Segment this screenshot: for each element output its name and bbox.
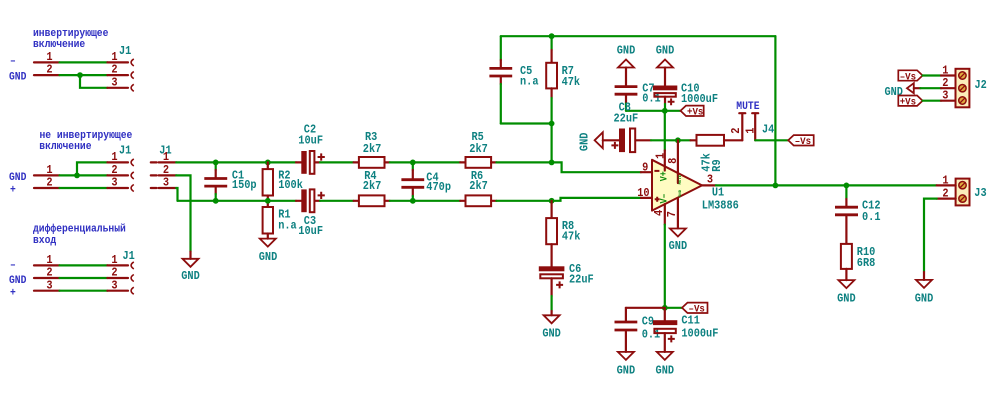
resistor R7: [546, 36, 580, 123]
wire +Vs down to opamp pin1: [664, 111, 666, 151]
svg-text:10uF: 10uF: [298, 134, 323, 148]
wire row1: [60, 61, 108, 63]
svg-text:–Vs: –Vs: [900, 71, 916, 83]
capacitor C6 (polarized): [539, 262, 594, 311]
resistor R9: [691, 135, 743, 172]
node junction C4 top: [410, 160, 416, 166]
wire down to top rail: [550, 124, 552, 163]
pin 1 of J1 (example 1): [107, 61, 128, 63]
note title: не инвертирующее включение: [39, 130, 132, 153]
pin 3 of J1 (example 2): [107, 187, 128, 189]
svg-text:n.a: n.a: [278, 219, 297, 233]
jumper J4 pin 1: [743, 113, 758, 140]
pin 1 of J1 (example 2): [107, 161, 128, 163]
svg-text:3: 3: [111, 278, 117, 292]
wire +Vs node: [626, 110, 681, 112]
pin 2 of J1 (example 1): [107, 74, 128, 76]
pin 9 inverting input: [641, 161, 660, 175]
svg-text:10uF: 10uF: [298, 224, 323, 238]
svg-text:0.1: 0.1: [862, 210, 881, 224]
svg-text:3: 3: [707, 172, 713, 186]
svg-text:J1: J1: [119, 144, 131, 158]
svg-text:+: +: [10, 288, 16, 300]
screw 3 of J2: [959, 97, 966, 104]
svg-text:GND: GND: [9, 72, 27, 84]
node junction C1 top: [213, 160, 219, 166]
node junction feedback on top rail: [549, 160, 555, 166]
node junction R8 top: [549, 198, 555, 204]
svg-text:8: 8: [666, 158, 680, 164]
wire stub row2 left: [34, 174, 60, 176]
svg-text:1: 1: [743, 127, 757, 133]
ground under J1 pin2: [181, 252, 200, 283]
wire J2 pin1: [923, 74, 941, 76]
svg-text:470p: 470p: [426, 180, 451, 194]
svg-text:MUTE: MUTE: [679, 174, 683, 184]
pin 8 mute: [666, 140, 683, 184]
svg-text:3: 3: [942, 88, 948, 102]
capacitor C9: [615, 308, 661, 352]
svg-text:LM3886: LM3886: [702, 199, 739, 213]
pin 1 of J1: [151, 150, 176, 164]
svg-text:R9: R9: [710, 159, 724, 171]
pin 2 of J3: [937, 187, 956, 201]
wire row2: [60, 174, 108, 176]
ground above C7: [617, 44, 636, 86]
svg-text:включение: включение: [39, 141, 91, 153]
power flag -Vs (bottom): [682, 303, 708, 316]
node junction R7 top: [549, 33, 555, 39]
wire row2: [60, 277, 108, 279]
node junction C1 bottom: [213, 198, 219, 204]
pin 10 non-inverting input: [637, 186, 659, 202]
ground above C10: [656, 44, 675, 86]
capacitor C4: [401, 162, 451, 200]
svg-text:10: 10: [637, 186, 649, 200]
svg-text:GND: GND: [656, 44, 675, 58]
ground under C11: [656, 352, 675, 377]
pin 1 of J1 (example 3): [107, 264, 128, 266]
wire stub row3 left: [34, 290, 60, 292]
svg-text:1000uF: 1000uF: [681, 326, 718, 340]
svg-text:47k: 47k: [562, 230, 581, 244]
pin 2 of J1 (example 2): [107, 174, 128, 176]
pin 1 of J2: [941, 64, 956, 78]
pin 2 of J1: [151, 163, 176, 177]
wire R6 to opamp pin10: [496, 198, 641, 201]
power flag -Vs (J2): [898, 70, 922, 83]
wire C2 to R3: [320, 161, 354, 163]
svg-text:C11: C11: [681, 313, 700, 327]
capacitor C11 (polarized): [653, 308, 719, 352]
ground under C9: [617, 352, 636, 377]
node junction +Vs: [662, 108, 668, 114]
resistor R3: [354, 130, 390, 168]
svg-text:дифференциальный: дифференциальный: [33, 223, 126, 236]
wire J1 pin3 to bottom rail: [176, 188, 177, 201]
wire row2: [60, 74, 108, 76]
connector J3 body: [956, 179, 970, 206]
ground under R10: [837, 280, 856, 306]
wire R5 to opamp pin9: [496, 162, 641, 172]
pin 3 output: [702, 172, 716, 186]
wire C5 bottom to R7 bottom: [501, 122, 552, 124]
capacitor C7: [615, 81, 661, 111]
svg-text:2: 2: [729, 127, 743, 133]
wire stub row1 left: [34, 264, 60, 266]
svg-text:6R8: 6R8: [857, 256, 876, 270]
svg-text:GND: GND: [9, 172, 27, 184]
svg-text:2k7: 2k7: [469, 179, 488, 193]
capacitor C5: [489, 36, 539, 123]
wire C8 to R9 junction: [651, 139, 691, 141]
svg-text:9: 9: [642, 161, 648, 175]
capacitor C3 (polarized): [296, 189, 325, 238]
resistor R4: [354, 169, 390, 206]
svg-text:GND: GND: [617, 363, 636, 377]
svg-text:–Vs: –Vs: [795, 136, 811, 148]
resistor R8: [546, 201, 580, 266]
wire row3: [60, 187, 108, 189]
wire J4 pin1 to -Vs flag: [755, 139, 788, 141]
svg-text:V–: V–: [659, 193, 670, 203]
node junction pin8: [675, 137, 681, 143]
svg-text:J3: J3: [974, 186, 986, 200]
svg-text:n.a: n.a: [520, 75, 539, 89]
ground under pin 7: [669, 229, 688, 253]
svg-text:GND: GND: [837, 292, 856, 306]
connector J2 body: [956, 69, 970, 108]
svg-text:GND: GND: [617, 44, 636, 58]
capacitor C10 (polarized): [653, 81, 718, 111]
op-amp U1 body: [652, 160, 702, 211]
pin 1 V+: [653, 150, 670, 181]
wire -Vs node to C9: [626, 307, 665, 309]
svg-text:+Vs: +Vs: [900, 97, 916, 109]
node junction -Vs: [662, 305, 668, 311]
wire J3 pin2 to ground: [924, 199, 937, 272]
wire C3 to R4: [320, 200, 354, 202]
resistor R2: [263, 162, 303, 200]
power flag +Vs: [681, 106, 704, 119]
svg-text:22uF: 22uF: [569, 273, 594, 287]
svg-text:3: 3: [111, 75, 117, 89]
svg-text:J2: J2: [975, 78, 987, 92]
svg-text:1: 1: [111, 150, 117, 164]
pin 7 GND: [665, 189, 683, 228]
svg-text:J1: J1: [119, 44, 131, 58]
svg-text:1: 1: [163, 150, 169, 164]
wire R4 to R6: [390, 200, 460, 202]
svg-text:вход: вход: [33, 235, 56, 247]
node junction feedback output: [773, 183, 779, 189]
pin 3 of J1 (example 1): [107, 87, 128, 89]
svg-text:–: –: [10, 260, 16, 272]
svg-text:22uF: 22uF: [614, 111, 639, 125]
svg-text:GND: GND: [915, 292, 934, 306]
note title: инвертирующее включение: [33, 28, 109, 51]
wire R3 to R5: [390, 161, 460, 163]
screw 2 of J2: [959, 85, 966, 92]
svg-text:GND: GND: [669, 239, 688, 253]
svg-text:–: –: [10, 56, 16, 68]
wire feedback right vertical: [774, 36, 776, 185]
svg-text:+Vs: +Vs: [687, 107, 703, 119]
wire stub row3 left: [34, 187, 60, 189]
pin 1 of J3: [937, 173, 956, 187]
wire -Vs node to flag: [665, 307, 682, 309]
wire J2 pin2: [920, 87, 941, 89]
pin 3 of J2: [941, 88, 956, 102]
wire output: [716, 184, 937, 186]
capacitor C1: [204, 162, 256, 200]
wire row3: [60, 290, 108, 292]
svg-text:GND: GND: [578, 133, 592, 152]
svg-text:C9: C9: [642, 314, 654, 328]
note title: дифференциальный вход: [33, 223, 126, 248]
pin 3 of J1 (example 3): [107, 290, 128, 292]
wire stub row1 left: [34, 61, 60, 63]
wire feedback top: [501, 35, 776, 37]
wire stub row2 left: [34, 74, 60, 76]
screw 1 of J2: [959, 72, 966, 79]
svg-text:GND: GND: [181, 269, 200, 283]
jumper J4 pin 2: [729, 113, 745, 140]
wire bottom rail segment 1: [178, 200, 297, 202]
node junction R2 top: [265, 160, 271, 166]
wire J2 pin3: [923, 100, 941, 102]
resistor R6: [460, 169, 496, 206]
wire J1 pin2 down to ground: [176, 175, 190, 251]
svg-text:3: 3: [163, 176, 169, 190]
node junction R2 bottom: [265, 198, 271, 204]
pin 4 V-: [652, 193, 670, 224]
screw 2 of J3: [959, 195, 966, 202]
svg-text:2: 2: [46, 176, 52, 190]
svg-text:4: 4: [652, 210, 666, 216]
junction example1: [77, 72, 83, 78]
svg-text:GND: GND: [259, 250, 278, 264]
ground under R1: [259, 239, 278, 264]
node junction R7 bottom: [549, 121, 555, 127]
wire to pin 3: [80, 75, 107, 88]
svg-text:GND: GND: [679, 189, 683, 197]
ground flag left of C8 (rotated): [578, 132, 603, 151]
wire row1: [60, 264, 108, 266]
svg-text:MUTE: MUTE: [736, 101, 759, 113]
svg-text:+: +: [10, 185, 16, 197]
ground flag at J2 pin2: [884, 83, 920, 99]
junction example2: [74, 173, 80, 179]
svg-text:2: 2: [46, 63, 52, 77]
svg-text:2k7: 2k7: [363, 142, 382, 156]
power flag -Vs (mute): [788, 135, 814, 148]
svg-text:J4: J4: [762, 122, 774, 136]
svg-text:GND: GND: [9, 275, 27, 287]
pin 2 of J2: [941, 76, 956, 90]
resistor R10: [841, 244, 875, 280]
screw 1 of J3: [959, 182, 966, 189]
capacitor C2 (polarized): [296, 123, 325, 174]
svg-text:V+: V+: [659, 171, 670, 181]
svg-text:включение: включение: [33, 39, 85, 51]
node junction C12: [844, 183, 850, 189]
svg-text:150p: 150p: [232, 178, 257, 192]
pin 3 of J1: [151, 176, 176, 190]
svg-text:2k7: 2k7: [363, 179, 382, 193]
svg-text:3: 3: [111, 176, 117, 190]
ground under J3 pin2: [915, 272, 934, 306]
wire junction to pin1: [77, 162, 107, 175]
capacitor C8 (polarized): [603, 101, 651, 153]
svg-text:1000uF: 1000uF: [681, 92, 718, 106]
svg-text:GND: GND: [542, 326, 561, 340]
pin 2 of J1 (example 3): [107, 277, 128, 279]
wire top rail segment 1: [176, 161, 296, 163]
svg-text:3: 3: [46, 278, 52, 292]
ground under C6: [542, 311, 561, 340]
svg-text:2: 2: [942, 187, 948, 201]
svg-text:J1: J1: [123, 249, 135, 263]
svg-text:GND: GND: [656, 363, 675, 377]
svg-text:7: 7: [665, 211, 679, 217]
svg-text:2k7: 2k7: [469, 142, 488, 156]
capacitor C12: [835, 185, 881, 244]
svg-text:1: 1: [942, 173, 948, 187]
wire pin 4 down: [664, 225, 666, 308]
wire stub row2 left: [34, 277, 60, 279]
svg-text:47k: 47k: [562, 75, 581, 89]
svg-text:100k: 100k: [278, 178, 303, 192]
resistor R5: [460, 130, 496, 168]
node junction C4 bottom: [410, 198, 416, 204]
power flag +Vs (J2): [898, 96, 922, 109]
resistor R1: [263, 201, 298, 239]
